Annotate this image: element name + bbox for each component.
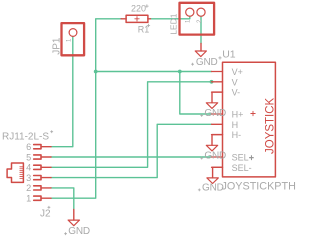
LED LED1: [180, 3, 215, 35]
svg-text:1: 1: [186, 19, 192, 23]
wire SEL+ net: J2 pin5 to U1 SEL+: [51, 156, 212, 158]
wire R1 output to LED1 anode: [150, 16, 190, 19]
J2 pin 1 fork: [34, 196, 51, 200]
svg-text:V-: V-: [232, 88, 241, 98]
wire supply net: J2 pin1 up to R1: [51, 19, 121, 198]
ground GND5 (J2 pin2): [68, 210, 79, 226]
svg-text:GND: GND: [204, 108, 226, 119]
svg-text:U1: U1: [222, 49, 236, 61]
op-amp U1 joystick box: [212, 62, 276, 177]
ground GND1 (LED cathode): [195, 44, 206, 57]
origin cross R1: [147, 24, 150, 27]
svg-text:6: 6: [26, 142, 31, 152]
svg-text:JOYSTICK: JOYSTICK: [265, 97, 277, 154]
svg-text:J2: J2: [40, 209, 51, 220]
junction V pin: [210, 80, 214, 84]
svg-text:V+: V+: [232, 67, 243, 77]
junction supply/V+: [94, 70, 98, 74]
svg-text:H+: H+: [232, 110, 244, 120]
J2 pin 6 fork: [34, 145, 51, 149]
svg-text:RJ11-2L-S: RJ11-2L-S: [2, 132, 49, 143]
svg-text:1: 1: [67, 38, 73, 42]
J2 pin 3 fork: [34, 176, 51, 180]
connector JP1: [62, 23, 85, 55]
svg-text:2: 2: [26, 183, 31, 193]
origin cross U1: [251, 111, 255, 115]
ground GND4 (SEL-): [207, 167, 223, 183]
svg-text:220: 220: [131, 4, 146, 14]
svg-text:V: V: [232, 77, 238, 87]
ground GND3 (H-): [206, 135, 222, 151]
svg-text:JP1: JP1: [52, 37, 63, 55]
svg-text:H: H: [232, 120, 239, 130]
wire H net: U1 H pin to J2 pin3: [51, 124, 212, 177]
wire V net: U1 V pin to J2 pin4: [51, 82, 212, 168]
J2 pin 4 fork: [34, 165, 51, 169]
wire V+ to H+ branch: [180, 72, 212, 115]
connector J2 RJ11 jack symbol: [7, 163, 23, 182]
svg-text:SEL-: SEL-: [232, 163, 252, 173]
ground GND2 (V-): [206, 92, 222, 108]
svg-text:4: 4: [26, 163, 31, 173]
svg-text:5: 5: [26, 152, 31, 162]
resistor R1: [121, 15, 150, 22]
svg-text:GND: GND: [196, 57, 218, 68]
svg-text:2: 2: [197, 19, 203, 23]
svg-text:GND: GND: [68, 226, 90, 237]
origin cross U1 value: [249, 156, 254, 161]
wire LED1 cathode down to GND: [200, 16, 202, 43]
svg-text:LED1: LED1: [169, 13, 179, 35]
svg-text:R1: R1: [138, 24, 150, 34]
origin cross 220: [145, 4, 148, 7]
svg-text:GND: GND: [204, 151, 226, 162]
J2 pin 5 fork: [34, 155, 51, 159]
J2 pin 2 fork: [34, 186, 51, 190]
wire J2 pin6 to JP1: [51, 37, 73, 147]
origin cross U1 name: [218, 56, 221, 59]
wire V+ branch to U1: [96, 71, 212, 73]
pin stubs V+ V V- H+ H H- SEL+ SEL-: [212, 72, 223, 168]
svg-text:JOYSTICKPTH: JOYSTICKPTH: [222, 181, 296, 193]
wire J2 pin2 to GND: [51, 188, 74, 210]
svg-text:GND: GND: [202, 182, 224, 193]
svg-text:1: 1: [26, 194, 31, 204]
svg-text:H-: H-: [232, 130, 242, 140]
svg-text:3: 3: [26, 173, 31, 183]
junction V+/H+ branch: [178, 70, 182, 74]
